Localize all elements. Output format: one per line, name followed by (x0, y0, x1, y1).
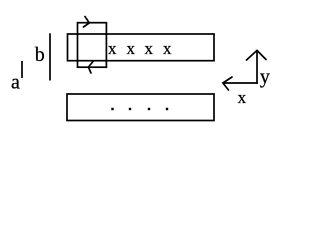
svg-text:x: x (127, 39, 136, 58)
svg-text:x: x (163, 39, 172, 58)
svg-text:x: x (108, 39, 117, 58)
svg-text:a: a (11, 72, 20, 94)
svg-text:x: x (145, 39, 154, 58)
svg-text:y: y (260, 66, 270, 88)
svg-text:b: b (35, 44, 45, 66)
svg-text:x: x (238, 88, 247, 107)
